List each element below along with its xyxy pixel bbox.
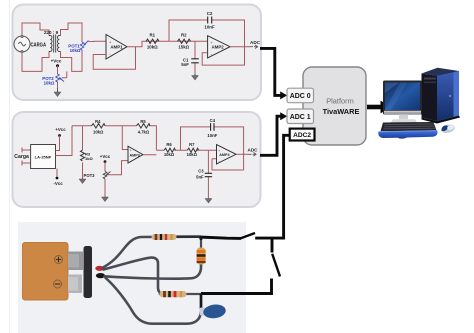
resistor R6: [164, 148, 175, 152]
svg-text:+: +: [130, 148, 132, 152]
wire A (nub to top resistor line): [103, 237, 199, 268]
mouse: [440, 123, 455, 134]
monitor frame: [383, 81, 422, 115]
tower drive bays: [424, 78, 436, 80]
wire C4 feedback: [181, 127, 244, 170]
wire ADC2 down to switches: [255, 135, 290, 252]
svg-text:10kΩ: 10kΩ: [93, 130, 104, 135]
wire: source to transformer primary: [22, 23, 49, 71]
svg-text:5nF: 5nF: [196, 175, 204, 180]
resistor R2: [178, 39, 191, 43]
keyboard keys: [381, 122, 437, 131]
svg-text:10kΩ: 10kΩ: [187, 152, 198, 157]
wire +Vcc to box: [56, 136, 60, 151]
svg-text:LA-25NP: LA-25NP: [35, 154, 52, 159]
monitor stand neck: [399, 114, 408, 119]
capacitor C2: [208, 17, 212, 24]
thermistor (blue): [200, 303, 227, 319]
wire C2 feedback: [169, 20, 245, 47]
wire -Vcc to box: [56, 169, 58, 177]
op-amp AMP2: [208, 36, 230, 58]
svg-text:10nF: 10nF: [207, 133, 217, 138]
panel 2 frame: [13, 112, 261, 207]
connector cylinder top: [68, 252, 83, 271]
rail with R4 R5: [72, 126, 156, 150]
op-amp AMP3: [128, 146, 143, 163]
panel 1 frame: [13, 5, 262, 101]
ground below POT2: [54, 88, 61, 97]
connector cylinder bottom: [68, 275, 82, 294]
svg-text:AMP3: AMP3: [129, 153, 139, 157]
resistor R3: [81, 150, 85, 161]
main line AMP3 to AMP4: [143, 150, 217, 155]
wire Carga terminals to LA-25NP: [22, 148, 31, 166]
keyboard wrist rest: [378, 130, 437, 138]
svg-text:10nF: 10nF: [204, 25, 215, 30]
svg-text:AMP2: AMP2: [211, 45, 224, 50]
svg-text:10kΩ: 10kΩ: [164, 152, 175, 157]
ground below R3: [79, 179, 86, 184]
svg-text:ADC 1: ADC 1: [290, 114, 311, 121]
faint page seam: [9, 0, 10, 333]
wire R3 branch: [82, 126, 84, 179]
svg-text:R4: R4: [95, 119, 101, 124]
arrow Platform to PC: [367, 105, 381, 110]
svg-text:R2: R2: [181, 32, 187, 37]
wire AMP2 lower feedback: [202, 47, 244, 65]
transformer T1: [49, 35, 61, 53]
svg-text:220 : 9: 220 : 9: [44, 30, 59, 35]
svg-text:ADC2: ADC2: [293, 132, 311, 139]
tower bright edge strip: [454, 71, 460, 117]
svg-text:5nF: 5nF: [181, 62, 189, 67]
svg-text:AMP4: AMP4: [219, 153, 230, 157]
svg-text:C2: C2: [207, 11, 213, 16]
tower front dark face: [422, 74, 438, 122]
dark terminal bar: [84, 246, 93, 298]
svg-text:C4: C4: [210, 118, 216, 123]
AC source V1: [14, 36, 30, 53]
wire AMP1 feedback loop: [93, 47, 135, 70]
resistor R1: [146, 39, 159, 43]
tower base shadow: [422, 116, 461, 124]
svg-text:+: +: [218, 149, 220, 153]
svg-text:-Vcc: -Vcc: [53, 181, 63, 186]
wire C3 branch: [207, 150, 209, 198]
PANEL 1 (voltage sense schematic): [13, 5, 262, 101]
svg-text:ADC 0: ADC 0: [290, 93, 311, 100]
PHOTO (battery + resistors): [18, 48, 391, 333]
capacitor C3: [205, 173, 212, 176]
resistor (photo, vertical): [197, 240, 206, 266]
resistor (photo, top): [152, 234, 177, 240]
svg-text:+Vcc: +Vcc: [51, 59, 62, 64]
svg-text:ADC: ADC: [248, 148, 259, 153]
wire B (nub to lower resistor left): [104, 258, 164, 294]
ground below POT3: [102, 197, 109, 202]
svg-text:Carga: Carga: [14, 154, 29, 160]
monitor stand base: [391, 119, 418, 123]
tower blue side face: [437, 71, 459, 121]
node ADC (panel2 output pin): [248, 148, 259, 157]
svg-text:+Vcc: +Vcc: [55, 127, 66, 132]
wire +Vcc to POT2: [58, 66, 67, 88]
wire AMP2 out to ADC pin: [230, 46, 250, 48]
wire: transformer secondary to POT1 and rail: [61, 23, 83, 78]
photo background: [18, 222, 246, 333]
wire top line black segment to switch S1: [177, 235, 202, 238]
battery - terminal mark: [54, 280, 62, 288]
svg-text:ADC: ADC: [250, 40, 261, 45]
svg-text:4.7kΩ: 4.7kΩ: [138, 130, 150, 135]
monitor bottom silver strip: [384, 111, 421, 114]
battery + terminal mark: [55, 256, 63, 264]
svg-text:POT3: POT3: [84, 173, 96, 178]
svg-text:10kΩ: 10kΩ: [70, 48, 81, 53]
svg-text:+Vcc: +Vcc: [100, 154, 111, 159]
resistor (photo, bottom): [160, 291, 202, 297]
potentiometer POT3: [103, 172, 110, 180]
red wire nub: [95, 266, 103, 271]
svg-text:R6: R6: [166, 142, 172, 147]
black wire nub: [96, 273, 105, 278]
wire C1 branch: [194, 41, 196, 73]
box ADC 0: [287, 88, 314, 103]
op-amp AMP4: [217, 145, 237, 165]
svg-text:AMP1: AMP1: [110, 45, 123, 50]
wire D (nub to thermistor junction, bottom loop): [106, 278, 201, 324]
capacitor C4: [211, 123, 214, 131]
box ADC 1: [287, 109, 314, 124]
resistor R7: [187, 148, 198, 152]
svg-text:1kΩ: 1kΩ: [85, 156, 93, 161]
wire junction to thermistor (vertical black): [200, 236, 203, 312]
PANEL 2 (current sense schematic): [13, 112, 261, 207]
wire +Vcc to POT3 to ground: [105, 161, 128, 197]
switch S1 (upper, open): [199, 233, 255, 238]
svg-text:R5: R5: [140, 119, 146, 124]
ground below C1: [192, 74, 199, 81]
svg-text:R7: R7: [189, 142, 195, 147]
battery (orange block): [23, 243, 69, 301]
monitor screen: [385, 83, 420, 111]
COMPUTER: [378, 68, 460, 139]
resistor R4: [92, 124, 105, 128]
potentiometer POT2: [56, 74, 64, 83]
op-amp AMP1: [106, 35, 127, 60]
svg-text:10kΩ: 10kΩ: [147, 45, 158, 50]
switch S2 (lower, open): [201, 254, 280, 294]
svg-text:Platform: Platform: [326, 97, 354, 106]
svg-text:TivaWARE: TivaWARE: [323, 107, 360, 116]
potentiometer POT1: [80, 41, 88, 52]
Platform TivaWARE box: [303, 67, 366, 145]
wire panel2 ADC to ADC1: [260, 116, 281, 155]
transducer LA-25NP: [31, 145, 56, 169]
box ADC2: [290, 129, 315, 141]
wire AMP4 out to ADC pin: [236, 153, 249, 155]
svg-text:CARGA: CARGA: [31, 42, 47, 48]
wire POT1 wiper to AMP1: [89, 40, 107, 42]
node ADC (panel1 output pin): [250, 40, 261, 49]
svg-text:C3: C3: [198, 169, 204, 174]
wire AMP1 out to R1 R2: [136, 41, 208, 46]
svg-text:10kΩ: 10kΩ: [44, 81, 55, 86]
tower top face: [422, 68, 460, 77]
INTERCONNECT (ADC wires, boxes, platform): [199, 48, 391, 293]
wire panel1 ADC to ADC0: [260, 48, 281, 95]
svg-text:15kΩ: 15kΩ: [178, 45, 189, 50]
wire C (nub to vertical resistor bottom): [105, 264, 202, 279]
capacitor C1: [191, 59, 199, 63]
resistor R5: [137, 124, 150, 128]
svg-text:R1: R1: [149, 32, 155, 37]
ground below C3: [205, 199, 212, 204]
wire LA-25NP output to rail: [56, 126, 73, 156]
